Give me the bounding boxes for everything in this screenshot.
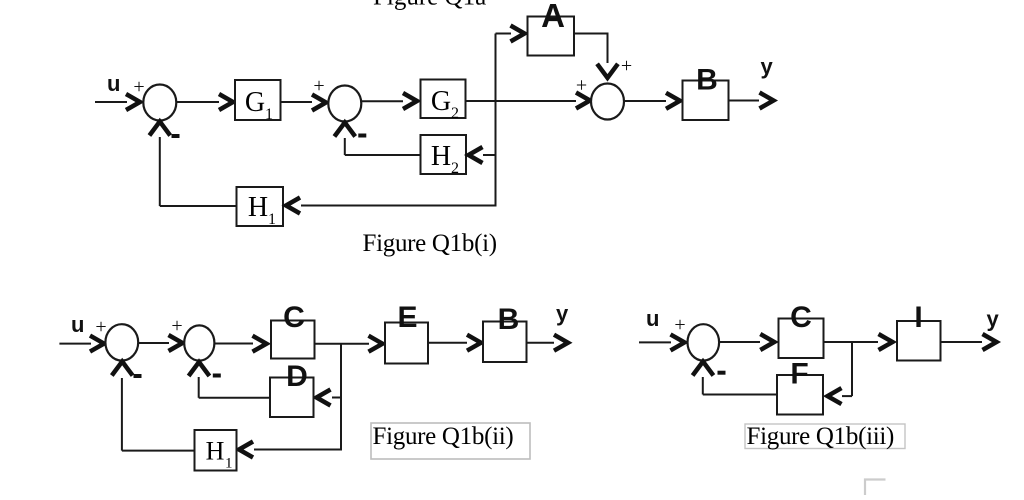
svg-text:+: +: [95, 316, 106, 338]
svg-text:Figure Q1b(iii): Figure Q1b(iii): [747, 423, 895, 450]
svg-text:Figure Q1a: Figure Q1a: [373, 0, 486, 11]
svg-text:y: y: [761, 54, 774, 79]
svg-text:+: +: [621, 55, 632, 77]
svg-text:A: A: [541, 0, 565, 34]
svg-text:Figure Q1b(i): Figure Q1b(i): [363, 230, 497, 257]
svg-text:G: G: [245, 87, 265, 118]
svg-text:u: u: [646, 306, 659, 331]
svg-text:1: 1: [268, 211, 276, 228]
svg-text:Figure Q1b(ii): Figure Q1b(ii): [373, 423, 514, 450]
svg-text:H: H: [431, 141, 451, 172]
svg-text:y: y: [556, 301, 569, 326]
svg-text:D: D: [286, 360, 308, 393]
svg-text:y: y: [987, 307, 1000, 332]
svg-text:1: 1: [265, 106, 273, 123]
svg-text:C: C: [790, 301, 812, 334]
svg-text:+: +: [171, 315, 182, 337]
svg-text:I: I: [914, 301, 922, 334]
svg-text:B: B: [498, 303, 520, 336]
svg-text:u: u: [107, 71, 120, 96]
svg-text:+: +: [313, 75, 324, 97]
svg-text:H: H: [248, 192, 268, 223]
svg-text:2: 2: [451, 105, 459, 122]
svg-text:E: E: [397, 301, 417, 334]
svg-text:+: +: [133, 76, 144, 98]
svg-text:C: C: [283, 301, 305, 334]
svg-text:+: +: [576, 75, 587, 97]
svg-text:H: H: [206, 437, 225, 466]
svg-text:u: u: [71, 312, 84, 337]
svg-text:1: 1: [225, 456, 233, 472]
svg-text:B: B: [696, 64, 718, 97]
svg-text:+: +: [674, 314, 685, 336]
svg-text:F: F: [790, 358, 808, 391]
svg-text:G: G: [431, 86, 451, 117]
svg-text:2: 2: [451, 160, 459, 177]
